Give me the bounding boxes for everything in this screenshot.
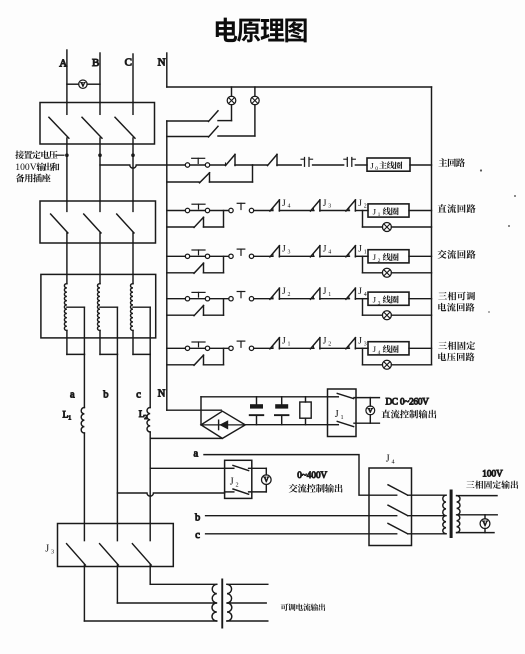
wire segment: [210, 255, 229, 257]
svg-text:3: 3: [288, 250, 291, 256]
svg-text:2: 2: [378, 258, 381, 264]
voltmeter PV4 100V output: [484, 515, 486, 519]
coil J1 label: [373, 206, 399, 218]
svg-text:100V: 100V: [15, 162, 36, 173]
wire phase c vertical: [149, 354, 151, 407]
variac winding L-a: [64, 284, 67, 331]
svg-text:A: A: [59, 57, 67, 69]
lamp HL1: [227, 96, 236, 105]
pushbutton stop (row 直流回路): [185, 208, 189, 212]
svg-text:J: J: [230, 477, 234, 488]
wire row1 segment 3: [277, 164, 301, 166]
svg-text:J: J: [323, 337, 327, 347]
stray scan speck 3: [508, 225, 510, 227]
wire lamp HL1 riser: [231, 105, 233, 121]
wire segment: [279, 298, 314, 300]
wire segment: [320, 255, 350, 257]
wire segment: [320, 210, 350, 212]
svg-text:J: J: [386, 453, 390, 464]
wire lamp to right rail: [391, 314, 431, 316]
pushbutton start (row 三相固定电压回路): [229, 346, 233, 350]
coil J2 label: [373, 252, 399, 264]
wire holding branch 2: [204, 226, 224, 228]
svg-text:B: B: [92, 57, 99, 69]
svg-text:N: N: [158, 389, 166, 400]
contact J4 label: [282, 199, 291, 210]
contactor J2 top contact: [225, 467, 234, 469]
svg-text:J: J: [358, 199, 362, 209]
svg-text:J: J: [358, 287, 362, 297]
svg-text:J: J: [45, 544, 49, 555]
pushbutton start (row 三相可调电流回路): [229, 297, 233, 301]
lamp (row 三相可调电流回路): [382, 311, 391, 320]
svg-text:1: 1: [378, 212, 381, 218]
wire row 直流回路 from bus: [167, 210, 186, 212]
svg-text:2: 2: [144, 415, 147, 421]
svg-text:4: 4: [378, 350, 381, 356]
svg-text:3: 3: [378, 300, 381, 306]
svg-text:3: 3: [364, 342, 367, 348]
wire b below J3 to T2: [116, 565, 118, 603]
holding contact J0 on branch: [167, 181, 199, 183]
wire segment: [320, 298, 350, 300]
svg-text:J: J: [370, 160, 374, 170]
svg-text:J: J: [358, 245, 362, 255]
wire segment to coil: [355, 298, 368, 300]
wire lamp to right rail: [391, 226, 431, 228]
auxiliary contact for HL2: [167, 136, 208, 138]
contactor J4 contact b: [388, 505, 408, 516]
wire segment to coil: [355, 347, 368, 349]
switch J3 box: [58, 524, 174, 567]
wire row1 segment 4: [313, 164, 344, 166]
wire row1 segment 5: [355, 164, 367, 166]
coil J2 box: [368, 250, 409, 263]
lamp (row 交流回路): [382, 268, 391, 277]
svg-text:4: 4: [328, 250, 331, 256]
svg-text:1: 1: [328, 292, 331, 298]
wire coil to right rail: [409, 255, 432, 257]
contact J2 label: [282, 287, 291, 298]
contact J0 row1 no.1: [225, 163, 227, 165]
svg-text:J: J: [373, 295, 377, 305]
svg-text:J: J: [323, 287, 327, 297]
resistor R1 bleeder: [305, 397, 307, 402]
svg-text:J: J: [282, 199, 286, 209]
transformer T1 secondary winding: [457, 496, 460, 533]
interlock contact J3 (row 交流回路): [272, 254, 274, 256]
wire control bus vertical: [166, 121, 168, 410]
svg-text:J: J: [373, 344, 377, 354]
wire a below J3 to T2: [83, 565, 85, 621]
wire coil to right rail: [409, 298, 432, 300]
holding contact J3: [194, 306, 204, 316]
wire segment to coil: [355, 210, 368, 212]
svg-text:J: J: [282, 287, 286, 297]
wire segment: [210, 347, 229, 349]
wire holding branch 2: [204, 272, 224, 274]
wire phase C vertical top: [132, 54, 134, 103]
wire holding branch: [167, 314, 194, 316]
wire holding branch: [167, 226, 194, 228]
svg-text:2: 2: [364, 204, 367, 210]
stray scan speck 4: [488, 311, 490, 313]
wire holding branch 2: [204, 364, 224, 366]
wire phase c vertical lower: [149, 432, 151, 541]
rectifier bridge diamond: [201, 411, 245, 438]
title text 电原理图: [216, 18, 307, 43]
svg-text:b: b: [103, 389, 108, 400]
junction dot line C: [131, 153, 135, 157]
contact J0 row1 no.2: [268, 154, 278, 165]
interlock contact J2 (row 三相可调电流回路): [272, 297, 274, 299]
wire coil to right rail: [409, 210, 432, 212]
switch J3 pole a: [67, 544, 86, 565]
wire segment: [279, 347, 314, 349]
contactor J2 label: [230, 477, 239, 489]
wire T1 secondary outputs: [457, 495, 497, 497]
variac tap wire L-b: [100, 306, 117, 308]
wire segment: [279, 255, 314, 257]
contact J1 label: [282, 337, 291, 348]
choke L1 on line a: [81, 408, 84, 434]
wire a feed to J4: [204, 455, 397, 496]
wire row 三相固定电压回路 from bus: [167, 347, 186, 349]
wire N to top control line: [167, 86, 432, 88]
contact J3 label: [323, 199, 332, 210]
wire segment: [279, 210, 314, 212]
contactor J2 bottom contact: [225, 491, 234, 493]
voltmeter PV1 between A and B: [67, 83, 79, 85]
capacitor C1: [256, 397, 258, 404]
svg-text:c: c: [136, 389, 141, 400]
variac tap wire L-a: [67, 306, 85, 308]
interlock contact J4 (row 直流回路): [272, 209, 274, 211]
switch QS1 pole A: [66, 103, 68, 115]
transformer T1 primary winding: [443, 495, 446, 534]
contactor J2 box: [225, 460, 252, 498]
wire phase A vertical top: [66, 50, 68, 103]
contact J1 label: [358, 245, 367, 256]
wire phase b feed to J2 with hop over c: [117, 493, 224, 496]
label 可调电流输出: [281, 604, 326, 611]
wire row1 segment 2: [253, 164, 268, 166]
holding contact J2: [194, 263, 204, 273]
switch QS1 pole C: [132, 103, 134, 115]
wire phase a vertical: [83, 354, 85, 407]
coil J4 box: [368, 342, 409, 355]
svg-text:J: J: [373, 206, 377, 216]
svg-text:1: 1: [288, 342, 291, 348]
coil J3 box: [368, 292, 409, 305]
wire phase b vertical: [116, 354, 118, 540]
wire row1 segment: [210, 164, 226, 166]
main isolator switch box QS1: [40, 103, 155, 145]
interlock contact J3 (row 三相固定电压回路): [348, 346, 350, 348]
wire phase c feed to rectifier: [150, 437, 222, 439]
coil J4 label: [373, 344, 399, 356]
wire coil to right rail: [409, 347, 432, 349]
svg-text:J: J: [323, 199, 327, 209]
variac tap wire L-c: [133, 306, 150, 308]
svg-text:J: J: [335, 409, 339, 420]
annotation pointer dash to line A: [57, 154, 65, 156]
svg-text:a: a: [70, 390, 75, 401]
svg-text:V: V: [368, 408, 373, 415]
wire holding branch: [167, 272, 194, 274]
lamp HL2: [251, 96, 260, 105]
pushbutton start (row 交流回路): [229, 254, 233, 258]
svg-text:J: J: [358, 337, 362, 347]
label 直流回路: [438, 204, 476, 213]
wire segment: [254, 298, 273, 300]
svg-text:2: 2: [328, 342, 331, 348]
coil J3 label: [373, 295, 399, 307]
wire T2 secondary outputs: [227, 583, 268, 585]
svg-text:C: C: [125, 57, 132, 69]
wire row 三相可调电流回路 from bus: [167, 298, 186, 300]
svg-text:J: J: [282, 337, 286, 347]
pushbutton stop (row 三相可调电流回路): [185, 297, 189, 301]
wire lamp to right rail: [391, 272, 431, 274]
variac winding bottom wire L-c: [132, 331, 134, 355]
label 交流控制输出: [289, 484, 343, 493]
transformer T2 core: [221, 579, 223, 629]
svg-text:b: b: [195, 512, 200, 523]
junction dot line A: [65, 153, 69, 157]
stray scan speck 1: [480, 169, 482, 171]
wire row1 feed from phase B with hop over C: [100, 165, 185, 168]
pushbutton start (row 直流回路): [229, 208, 233, 212]
lamp (row 直流回路): [382, 223, 391, 232]
svg-text:4: 4: [288, 204, 291, 210]
wire lamp branch drop: [362, 211, 364, 228]
transformer T1 core: [450, 490, 453, 539]
interlock contact J3 (row 直流回路): [312, 209, 314, 211]
interlock contact J1 (row 三相可调电流回路): [312, 297, 314, 299]
wire N feed to rectifier: [167, 409, 222, 411]
wire segment to coil: [355, 255, 368, 257]
contact J3 label: [358, 337, 367, 348]
variac winding bottom wire L-a: [66, 331, 68, 355]
holding contact J4: [194, 355, 204, 365]
label 三相固定输出: [466, 480, 518, 488]
coil J1 box: [368, 204, 409, 217]
holding contact J1: [194, 217, 204, 227]
pushbutton stop (row 交流回路): [185, 254, 189, 258]
contactor J4 label: [386, 453, 395, 465]
wire row1 holding branch riser: [252, 165, 254, 182]
contact J4 label: [323, 245, 332, 256]
variac winding L-c: [131, 284, 134, 331]
wire holding branch: [167, 364, 194, 366]
variac winding bottom wire L-b: [99, 331, 101, 355]
wire phase a vertical lower: [83, 433, 85, 541]
wire DC+ top rail: [201, 396, 328, 398]
wire c below J3 to T2: [149, 565, 151, 584]
wire row1 to right rail: [410, 164, 432, 166]
switch J3 pole c: [132, 544, 151, 565]
wire segment: [254, 347, 273, 349]
wire lamp branch drop: [362, 256, 364, 273]
coil J0 label: [370, 160, 402, 172]
wire right rail vertical: [431, 87, 433, 365]
wire row 交流回路 from bus: [167, 255, 186, 257]
pushbutton SB0 stop (row 主回路): [185, 163, 189, 167]
svg-text:0~400V: 0~400V: [297, 470, 327, 480]
switch QS2 pole A: [66, 201, 68, 211]
label 直流控制输出: [382, 410, 437, 419]
svg-text:V: V: [81, 82, 86, 89]
wire lamp to right rail: [391, 364, 431, 366]
svg-text:1: 1: [364, 250, 367, 256]
switch box QS2: [40, 201, 156, 243]
junction dot line B: [98, 153, 102, 157]
variac autotransformer box T0: [41, 274, 156, 338]
interlock contact J2 (row 直流回路): [348, 209, 350, 211]
thermal overload contact FR2: [346, 158, 348, 167]
svg-text:2: 2: [236, 482, 239, 489]
svg-text:4: 4: [392, 458, 395, 465]
svg-text:DC 0~260V: DC 0~260V: [386, 396, 430, 406]
wire lamp HL2 top stub: [254, 87, 256, 96]
svg-text:J: J: [282, 245, 286, 255]
wire J4 outputs to transformer T1: [408, 494, 446, 496]
contactor J4 contact a: [388, 485, 408, 495]
capacitor C2: [281, 397, 283, 404]
svg-text:4: 4: [364, 292, 367, 298]
svg-text:3: 3: [51, 549, 54, 556]
svg-text:1: 1: [341, 414, 344, 421]
voltmeter PV2 DC output: [369, 398, 371, 407]
contactor J1 box: [328, 389, 357, 437]
interlock contact J1 (row 交流回路): [348, 254, 350, 256]
contactor J4 contact c: [388, 523, 408, 533]
interlock contact J2 (row 三相固定电压回路): [312, 346, 314, 348]
svg-text:2: 2: [288, 292, 291, 298]
lamp (row 三相固定电压回路): [382, 360, 391, 369]
rectifier diode symbol: [201, 424, 245, 426]
contactor J4 box: [369, 468, 412, 546]
switch QS2 pole B: [99, 201, 101, 211]
coil J0 box: [367, 158, 410, 171]
wire neutral N vertical top: [166, 53, 168, 87]
svg-text:c: c: [195, 530, 200, 541]
interlock contact J4 (row 三相可调电流回路): [348, 297, 350, 299]
svg-text:J: J: [373, 252, 377, 262]
thermal overload contact FR1: [304, 158, 306, 167]
annotation text 接置定电压100V输出和备用插座: [15, 151, 59, 183]
transformer T2 primary winding: [212, 584, 217, 621]
auxiliary contact for HL1: [167, 120, 208, 122]
wire segment: [254, 255, 273, 257]
interlock contact J4 (row 交流回路): [312, 254, 314, 256]
label 三相固定电压回路: [438, 341, 475, 361]
switch J3 pole b: [100, 544, 119, 565]
svg-text:1: 1: [68, 416, 71, 422]
contactor J1 bottom contact: [328, 424, 339, 426]
wire phase B vertical top: [99, 53, 101, 103]
wire b feed to J4: [206, 515, 397, 517]
wire segment: [254, 210, 273, 212]
svg-text:V: V: [482, 520, 487, 528]
svg-text:0: 0: [375, 166, 378, 172]
wire lamp HL2 riser: [254, 105, 256, 136]
svg-text:N: N: [158, 57, 166, 69]
svg-text:J: J: [323, 245, 327, 255]
svg-text:100V: 100V: [482, 468, 503, 478]
svg-text:V: V: [264, 476, 269, 484]
label 三相可调电流回路: [438, 292, 475, 312]
transformer T2 secondary winding: [227, 584, 232, 621]
wire holding branch 2: [204, 314, 224, 316]
wire lamp branch drop: [362, 299, 364, 316]
switch QS2 pole C: [132, 201, 134, 211]
variac winding L-b: [97, 284, 100, 331]
contact J2 label: [358, 199, 367, 210]
wire segment: [210, 298, 229, 300]
wire DC+ riser: [200, 397, 202, 425]
contact J4 label: [358, 287, 367, 298]
svg-text:a: a: [194, 449, 199, 460]
voltmeter PV3 AC control output: [265, 468, 267, 475]
label 交流回路: [438, 250, 476, 259]
switch J3 label: [45, 544, 54, 556]
svg-text:3: 3: [328, 204, 331, 210]
interlock contact J1 (row 三相固定电压回路): [272, 346, 274, 348]
contact J3 label: [282, 245, 291, 256]
label 主回路: [438, 158, 465, 167]
wire c feed to J4: [206, 533, 397, 535]
contactor J1 top contact: [328, 396, 339, 398]
wire DC- bottom rail: [245, 424, 327, 426]
choke L2 on line c: [147, 408, 150, 432]
wire lamp branch drop: [362, 348, 364, 365]
contact J2 label: [323, 337, 332, 348]
wire segment: [210, 210, 229, 212]
contactor J1 label: [335, 409, 344, 421]
wire lamp HL1 top stub: [231, 87, 233, 96]
pushbutton stop (row 三相固定电压回路): [185, 346, 189, 350]
wire segment: [320, 347, 350, 349]
switch QS1 pole B: [99, 103, 101, 115]
stray scan speck 2: [514, 195, 516, 197]
wire phase c feed to J2: [150, 467, 224, 469]
contact J1 label: [323, 287, 332, 298]
